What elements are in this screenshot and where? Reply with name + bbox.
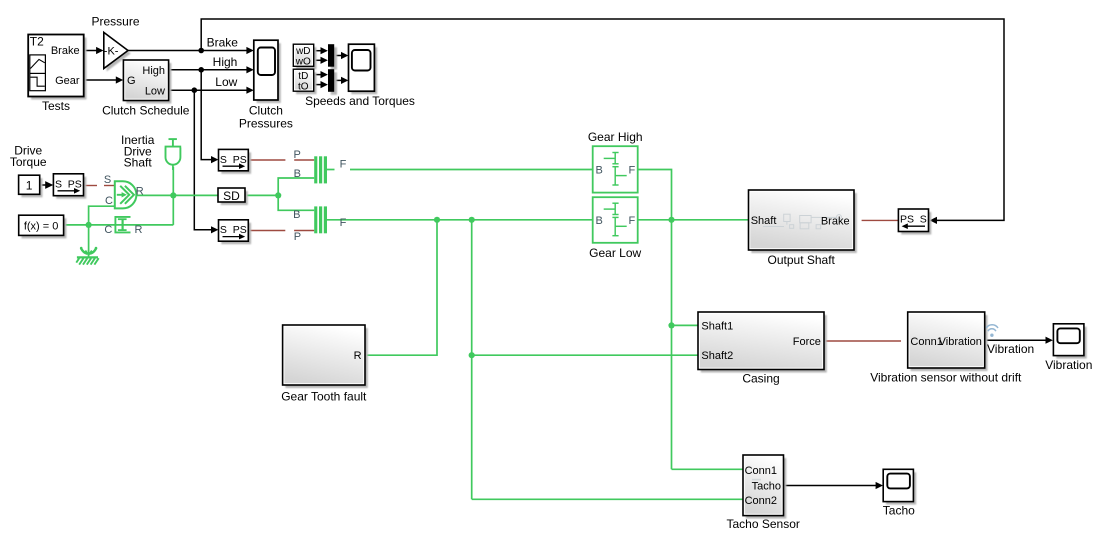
scope Vibration [1053, 324, 1086, 359]
block Casing [698, 312, 827, 373]
svg-text:tD: tD [298, 71, 308, 82]
wire green vertical to Casing Shaft2 and Tacho Conn2 [472, 220, 743, 500]
converter PS-S feedback [898, 209, 931, 235]
label block name Tacho scope [883, 503, 915, 517]
svg-text:F: F [628, 215, 635, 227]
block Tacho Sensor [743, 455, 786, 519]
svg-text:B: B [294, 168, 301, 180]
svg-text:Vibration: Vibration [987, 342, 1034, 356]
wire Tests Gear output to Clutch Schedule [84, 76, 123, 83]
junction at gear output node [668, 217, 674, 223]
wire High from Clutch Schedule to scope [169, 66, 254, 73]
block tD tO [293, 69, 316, 94]
label block name Output Shaft [768, 253, 836, 267]
scope Speeds and Torques [349, 44, 378, 94]
svg-text:Shaft: Shaft [751, 215, 777, 227]
svg-text:Casing: Casing [742, 371, 779, 385]
svg-text:wO: wO [295, 57, 311, 68]
svg-text:PS S: PS S [900, 214, 927, 226]
wire tO to mux [314, 81, 328, 88]
block Gear Tooth fault [283, 325, 368, 388]
svg-text:T2: T2 [30, 35, 44, 49]
svg-text:Force: Force [793, 336, 821, 348]
junction on High wire [198, 67, 204, 73]
junction on Brake wire [198, 48, 204, 54]
wire green Gear High F down to output line [638, 170, 672, 220]
constant Drive Torque value 1 [19, 175, 43, 197]
svg-text:B: B [293, 209, 300, 221]
label port P upper clutch [294, 149, 301, 161]
clutch upper (triple plates) [314, 156, 327, 183]
block Output Shaft [749, 190, 857, 253]
wire Drive Torque constant to S-PS converter [40, 181, 54, 189]
junction on Low wire [192, 87, 198, 93]
svg-text:Gear Tooth fault: Gear Tooth fault [281, 390, 367, 404]
svg-text:G: G [127, 75, 136, 87]
svg-text:Torque: Torque [10, 155, 47, 169]
junction at SD output node [275, 192, 281, 198]
wire mux1 to Speeds scope [334, 52, 348, 59]
wire Vibration sensor to Vibration scope [985, 337, 1053, 344]
svg-text:1: 1 [26, 178, 33, 192]
svg-text:Brake: Brake [207, 35, 239, 49]
wire green upper clutch F to Gear High B [327, 169, 593, 171]
wire green SD output to clutch B ports [245, 178, 314, 210]
wire green Gear Tooth fault R up to output line [365, 220, 437, 355]
svg-text:Tacho: Tacho [883, 503, 915, 517]
wire physical signal S-PS drive to torque source S port [84, 185, 115, 187]
svg-text:Vibration sensor without drift: Vibration sensor without drift [870, 370, 1022, 384]
svg-text:Tests: Tests [42, 99, 70, 113]
junction at Casing Shaft1 tap [668, 322, 674, 328]
block Gear Low [593, 197, 638, 243]
clutch lower (triple plates) [314, 206, 327, 233]
svg-text:F: F [340, 217, 347, 229]
wire wD to mux [314, 47, 328, 54]
label port S torque source [104, 174, 111, 186]
label port R damper [135, 224, 143, 236]
svg-text:Pressure: Pressure [91, 14, 139, 28]
converter S-PS lower clutch [219, 220, 252, 244]
ground mechanical rotational reference [76, 247, 98, 265]
label port C damper [104, 224, 112, 236]
label block name Tests [42, 99, 70, 113]
wire physical signal Output Shaft Brake to PS-S converter [862, 219, 900, 221]
label port C torque source [105, 195, 113, 207]
label block name Inertia Drive Shaft [121, 133, 155, 169]
wire physical signal upper S-PS to upper clutch P port [248, 159, 314, 161]
svg-text:Clutch Schedule: Clutch Schedule [102, 103, 190, 117]
wire green lower clutch F to Gear Low B [327, 219, 593, 221]
svg-text:Shaft1: Shaft1 [701, 320, 733, 332]
wire green down to Tacho Sensor Conn1 [672, 468, 744, 470]
svg-text:B: B [596, 165, 603, 177]
mux lower [328, 69, 337, 95]
svg-text:Vibration: Vibration [1045, 358, 1092, 372]
converter S-PS drive [53, 174, 86, 199]
svg-text:f(x) = 0: f(x) = 0 [24, 221, 59, 233]
junction at shaft node [170, 192, 176, 198]
gain Pressure -K- [104, 32, 131, 71]
torque source Drive [115, 181, 137, 208]
wire green branch down to rotational reference ground [88, 225, 90, 251]
svg-text:S: S [104, 174, 111, 186]
label block name Vibration sensor without drift [870, 370, 1022, 384]
svg-text:Vibration: Vibration [939, 336, 982, 348]
wire green output node down to Casing Shaft1 [672, 220, 699, 469]
svg-text:Brake: Brake [51, 45, 80, 57]
junction tacho Conn2 tap [469, 217, 475, 223]
svg-text:wD: wD [295, 46, 310, 57]
label port B upper clutch [294, 168, 301, 180]
svg-text:Conn1: Conn1 [745, 465, 777, 477]
svg-text:R: R [136, 186, 144, 198]
block Clutch Schedule [123, 60, 171, 104]
label block name Gear Low [589, 246, 641, 260]
label block name Clutch Schedule [102, 103, 190, 117]
label block name Drive Torque [10, 143, 47, 168]
svg-text:Conn2: Conn2 [745, 495, 777, 507]
block Gear High [593, 146, 638, 192]
svg-text:C: C [105, 195, 113, 207]
wire green f(x)=0 to damper and shaft node [64, 224, 174, 226]
svg-text:C: C [104, 224, 112, 236]
wire green Gear Low F to Output Shaft [638, 219, 749, 221]
inertia Drive Shaft [165, 139, 182, 170]
junction Gear Tooth fault tap [434, 217, 440, 223]
svg-text:Clutch: Clutch [249, 103, 283, 117]
label port R torque source [136, 186, 144, 198]
sensor SD block [218, 188, 248, 205]
svg-text:Gear Low: Gear Low [589, 246, 641, 260]
svg-text:Low: Low [215, 75, 237, 89]
wire green torque source R to SD sensor [136, 194, 219, 196]
scope Clutch Pressures [254, 40, 281, 103]
svg-text:High: High [213, 55, 238, 69]
label port P lower clutch [294, 231, 301, 243]
wire tD to mux [314, 71, 328, 78]
svg-text:Output Shaft: Output Shaft [768, 253, 836, 267]
svg-text:Low: Low [145, 85, 165, 97]
label block name Gear High [588, 130, 643, 144]
svg-text:Brake: Brake [821, 215, 850, 227]
damper rotational [115, 217, 130, 233]
label port F upper clutch [340, 158, 347, 170]
svg-text:S PS: S PS [55, 178, 82, 190]
wire green branch up to torque source C port [89, 206, 115, 225]
wire feedback from Brake junction up, across top, down to PS-S converter [201, 19, 1004, 224]
label signal Vibration [987, 342, 1034, 356]
label port F lower clutch [340, 217, 347, 229]
wire Low from Clutch Schedule to scope [169, 87, 254, 94]
label signal Brake [207, 35, 239, 49]
svg-text:P: P [294, 231, 301, 243]
svg-text:Gear: Gear [55, 75, 80, 87]
block Tests (Signal Builder) [28, 35, 86, 100]
label block name Tacho Sensor [727, 517, 800, 531]
wire Tacho Sensor to Tacho scope [784, 482, 884, 489]
svg-text:Shaft2: Shaft2 [701, 350, 733, 362]
wire physical signal lower S-PS to lower clutch P port [248, 230, 314, 232]
svg-text:High: High [142, 65, 165, 77]
svg-text:F: F [340, 158, 347, 170]
label block name Speeds and Torques [305, 94, 415, 108]
wire Tests Brake output to gain [84, 47, 104, 54]
label signal Low [215, 75, 237, 89]
svg-text:F: F [628, 165, 635, 177]
svg-text:Gear High: Gear High [588, 130, 643, 144]
wire Low branch down to lower S-PS converter [194, 90, 218, 233]
wire physical signal Casing Force to Vibration sensor Conn1 [824, 340, 901, 342]
svg-text:S PS: S PS [220, 224, 247, 236]
wire green damper R up to inertia stem [172, 167, 174, 225]
label block name Vibration scope [1045, 358, 1092, 372]
label block name Casing [742, 371, 779, 385]
svg-text:P: P [294, 149, 301, 161]
wire mux2 to Speeds scope [334, 77, 348, 84]
svg-text:Pressures: Pressures [239, 116, 293, 130]
solver f(x)=0 block [19, 215, 67, 238]
label block name Gear Tooth fault [281, 390, 367, 404]
label signal High [213, 55, 238, 69]
svg-text:Speeds and Torques: Speeds and Torques [305, 94, 415, 108]
wire Brake from Pressure gain to Clutch Pressures scope [128, 47, 254, 54]
label block name Pressure [91, 14, 139, 28]
svg-text:R: R [354, 350, 362, 362]
label block name Clutch Pressures [239, 103, 293, 130]
scope Tacho [883, 469, 916, 504]
converter S-PS upper clutch [219, 149, 252, 173]
block wD wO [293, 44, 316, 69]
svg-text:R: R [135, 224, 143, 236]
junction at f(x)=0 node [86, 222, 92, 228]
block Vibration sensor without drift [908, 312, 988, 371]
wire wO to mux [314, 57, 328, 64]
svg-text:B: B [596, 215, 603, 227]
junction at Shaft2 tap [469, 352, 475, 358]
svg-text:Tacho: Tacho [752, 480, 781, 492]
svg-text:S PS: S PS [220, 154, 247, 166]
wire High branch down to upper S-PS converter [201, 70, 218, 163]
svg-text:-K-: -K- [104, 45, 119, 57]
icon wifi on vibration sensor [986, 325, 998, 337]
svg-text:SD: SD [223, 189, 240, 203]
label port B lower clutch [293, 209, 300, 221]
svg-text:tO: tO [298, 82, 309, 93]
mux upper [328, 44, 337, 69]
svg-text:Shaft: Shaft [124, 156, 153, 170]
svg-text:Tacho Sensor: Tacho Sensor [727, 517, 800, 531]
